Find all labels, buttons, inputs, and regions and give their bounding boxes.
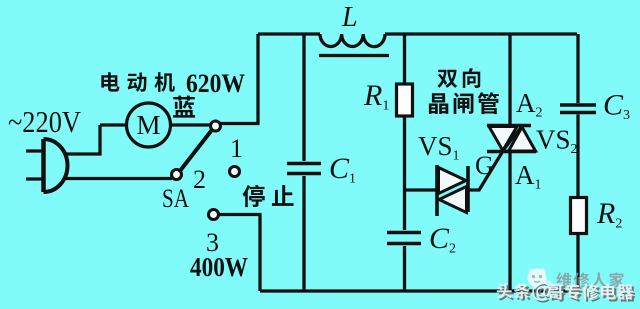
svg-text:SA: SA [162,184,189,213]
svg-text:400W: 400W [190,252,248,282]
svg-text:L: L [341,2,358,33]
svg-text:M: M [136,110,160,140]
svg-text:@: @ [531,280,551,303]
svg-text:~220V: ~220V [8,104,82,139]
svg-text:620W: 620W [186,69,245,98]
svg-text:G: G [475,151,494,180]
svg-text:1: 1 [230,134,243,163]
svg-text:2: 2 [193,165,206,194]
